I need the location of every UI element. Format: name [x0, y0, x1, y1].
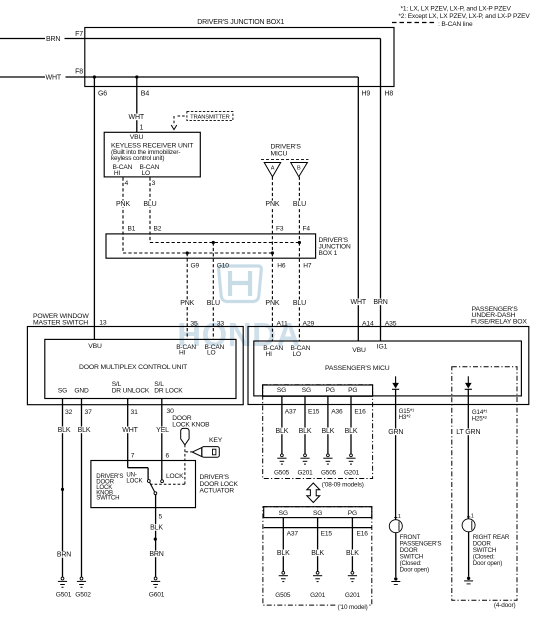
- svg-text:FUSE/RELAY BOX: FUSE/RELAY BOX: [471, 319, 527, 326]
- svg-text:F4: F4: [303, 226, 311, 233]
- svg-text:G601: G601: [149, 591, 165, 598]
- svg-text:BLK: BLK: [345, 428, 358, 435]
- svg-text:32: 32: [65, 409, 73, 416]
- svg-text:B4: B4: [141, 91, 150, 98]
- svg-text:HI: HI: [266, 351, 273, 358]
- svg-text:G10: G10: [217, 262, 229, 269]
- svg-text:B1: B1: [128, 226, 136, 233]
- svg-text:DRIVER'S JUNCTION BOX1: DRIVER'S JUNCTION BOX1: [197, 19, 284, 26]
- svg-text:SG: SG: [277, 387, 286, 394]
- svg-text:BRN: BRN: [46, 36, 60, 43]
- svg-text:WHT: WHT: [129, 114, 145, 121]
- svg-text:PNK: PNK: [180, 300, 194, 307]
- svg-text:LOCK: LOCK: [126, 478, 142, 485]
- svg-text:BLK: BLK: [346, 550, 359, 557]
- svg-text:Door open): Door open): [400, 567, 430, 574]
- svg-text:YEL: YEL: [156, 427, 169, 434]
- svg-text:GRN: GRN: [388, 429, 403, 436]
- svg-text:B: B: [297, 166, 301, 172]
- svg-text:1: 1: [140, 124, 144, 131]
- svg-text:LO: LO: [142, 170, 151, 177]
- svg-text:G201: G201: [297, 470, 313, 477]
- svg-text:DR UNLOCK: DR UNLOCK: [112, 387, 150, 394]
- svg-text:SG: SG: [279, 510, 288, 517]
- svg-text:E15: E15: [321, 530, 333, 537]
- svg-text:LO: LO: [207, 350, 216, 357]
- svg-text:ACTUATOR: ACTUATOR: [200, 487, 235, 494]
- svg-text:BRN: BRN: [149, 551, 163, 558]
- svg-text:BLK: BLK: [322, 428, 335, 435]
- svg-text:E16: E16: [357, 530, 369, 537]
- svg-text:WHT: WHT: [122, 427, 138, 434]
- svg-text:LO: LO: [293, 351, 302, 358]
- svg-text:*2: Except LX, LX PZEV, LX-P,: *2: Except LX, LX PZEV, LX-P, and LX-P P…: [398, 13, 530, 20]
- svg-text:*1: LX, LX PZEV, LX-P, and LX-: *1: LX, LX PZEV, LX-P, and LX-P PZEV: [401, 5, 512, 12]
- svg-text:H6: H6: [277, 262, 286, 269]
- svg-text:LOCK KNOB: LOCK KNOB: [172, 421, 210, 428]
- svg-text:PNK: PNK: [116, 201, 130, 208]
- svg-text:7: 7: [131, 452, 135, 459]
- svg-text:(4-door): (4-door): [494, 602, 516, 609]
- svg-text:BLU: BLU: [293, 300, 306, 307]
- svg-text:H3*²: H3*²: [399, 414, 411, 421]
- svg-text:A37: A37: [287, 530, 299, 537]
- svg-text:DOOR MULTIPLEX CONTROL UNIT: DOOR MULTIPLEX CONTROL UNIT: [79, 364, 187, 371]
- svg-text:31: 31: [131, 409, 139, 416]
- svg-text:13: 13: [99, 319, 107, 326]
- svg-text:G501: G501: [56, 591, 72, 598]
- svg-text:VBU: VBU: [130, 134, 144, 141]
- svg-text:: B-CAN line: : B-CAN line: [438, 21, 473, 28]
- svg-text:BLK: BLK: [299, 428, 312, 435]
- svg-text:BOX 1: BOX 1: [319, 250, 338, 257]
- svg-text:PASSENGER'S MICU: PASSENGER'S MICU: [325, 365, 390, 372]
- svg-text:E16: E16: [354, 409, 366, 416]
- svg-text:HI: HI: [179, 350, 186, 357]
- svg-text:E15: E15: [308, 409, 320, 416]
- svg-text:PNK: PNK: [265, 300, 279, 307]
- svg-text:A37: A37: [285, 409, 297, 416]
- svg-text:DR LOCK: DR LOCK: [154, 387, 183, 394]
- svg-text:TRANSMITTER: TRANSMITTER: [190, 114, 230, 120]
- svg-text:BRN: BRN: [57, 552, 71, 559]
- svg-text:BLK: BLK: [276, 428, 289, 435]
- svg-text:BLU: BLU: [207, 300, 220, 307]
- svg-text:B2: B2: [154, 226, 162, 233]
- svg-text:BLK: BLK: [78, 427, 91, 434]
- svg-text:H7: H7: [303, 262, 312, 269]
- svg-text:3: 3: [152, 180, 156, 187]
- svg-text:BLU: BLU: [293, 201, 306, 208]
- svg-text:WHT: WHT: [46, 75, 62, 82]
- svg-text:A: A: [271, 166, 275, 172]
- svg-text:BLK: BLK: [150, 525, 163, 532]
- svg-text:BLU: BLU: [143, 201, 156, 208]
- svg-text:GND: GND: [74, 387, 89, 394]
- svg-text:G201: G201: [310, 592, 326, 599]
- svg-text:('08-09 models): ('08-09 models): [322, 481, 364, 488]
- svg-text:SG: SG: [58, 387, 67, 394]
- svg-text:('10 model): ('10 model): [338, 604, 368, 611]
- svg-text:G6: G6: [98, 91, 107, 98]
- svg-text:6: 6: [166, 452, 170, 459]
- svg-text:SG: SG: [302, 387, 311, 394]
- svg-text:A36: A36: [331, 409, 343, 416]
- svg-text:MASTER SWITCH: MASTER SWITCH: [33, 319, 88, 326]
- svg-text:BLK: BLK: [277, 550, 290, 557]
- svg-text:keyless control unit): keyless control unit): [111, 155, 164, 162]
- svg-text:PG: PG: [348, 510, 357, 517]
- svg-text:LT GRN: LT GRN: [456, 429, 480, 436]
- svg-text:PG: PG: [348, 387, 357, 394]
- svg-text:HI: HI: [114, 170, 121, 177]
- svg-text:VBU: VBU: [352, 347, 366, 354]
- svg-text:G201: G201: [345, 592, 361, 599]
- svg-text:G505: G505: [274, 470, 290, 477]
- svg-text:H9: H9: [362, 91, 371, 98]
- svg-text:LOCK: LOCK: [166, 473, 184, 480]
- svg-text:4: 4: [125, 180, 129, 187]
- svg-text:F7: F7: [75, 31, 83, 38]
- svg-text:MICU: MICU: [271, 150, 288, 157]
- svg-text:G502: G502: [75, 591, 91, 598]
- svg-text:G9: G9: [191, 262, 200, 269]
- svg-text:37: 37: [85, 409, 93, 416]
- svg-text:BLK: BLK: [58, 427, 71, 434]
- svg-text:WHT: WHT: [351, 299, 367, 306]
- svg-text:PNK: PNK: [265, 201, 279, 208]
- svg-text:SG: SG: [313, 510, 322, 517]
- svg-text:H25*²: H25*²: [472, 415, 487, 422]
- svg-text:H8: H8: [385, 91, 394, 98]
- svg-text:5: 5: [159, 514, 163, 521]
- svg-text:G505: G505: [321, 470, 337, 477]
- svg-text:1: 1: [398, 514, 401, 520]
- svg-text:PG: PG: [326, 387, 335, 394]
- svg-text:G201: G201: [344, 470, 360, 477]
- svg-text:G505: G505: [275, 592, 291, 599]
- svg-text:F3: F3: [276, 226, 284, 233]
- svg-text:Door open): Door open): [473, 560, 503, 567]
- svg-text:IG1: IG1: [377, 343, 388, 350]
- svg-text:1: 1: [471, 513, 474, 519]
- svg-text:KEY: KEY: [209, 437, 223, 444]
- svg-text:BLK: BLK: [311, 550, 324, 557]
- svg-text:SWITCH: SWITCH: [96, 495, 119, 502]
- svg-text:VBU: VBU: [88, 343, 102, 350]
- svg-text:F8: F8: [75, 69, 83, 76]
- svg-text:BRN: BRN: [373, 299, 387, 306]
